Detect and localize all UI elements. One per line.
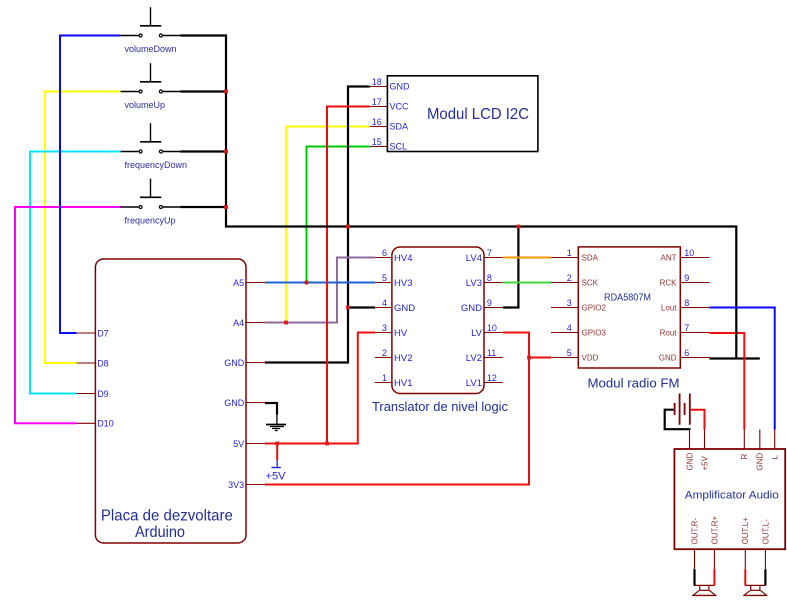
- svg-text:6: 6: [684, 348, 689, 358]
- module U3 Translator de nivel logic: [392, 247, 484, 394]
- svg-text:OUT.R-: OUT.R-: [690, 518, 699, 545]
- svg-text:HV1: HV1: [394, 378, 412, 389]
- svg-text:GPIO3: GPIO3: [582, 328, 607, 337]
- pin GND (Arduino right): [224, 398, 265, 408]
- wire: Arduino GND to earth (black): [265, 403, 277, 415]
- svg-text:1: 1: [567, 248, 572, 258]
- wire: branch to translator GND pin4 (black): [348, 306, 375, 308]
- junction: [517, 225, 521, 229]
- wire: Rout to amp R (red): [710, 333, 745, 430]
- pin 5 HV3 (translator left): [375, 273, 413, 289]
- pin 17 VCC (LCD): [370, 97, 409, 111]
- svg-text:SCK: SCK: [582, 278, 599, 287]
- pin D10 (Arduino left): [77, 419, 114, 429]
- pin 12 LV1 (translator right): [466, 373, 503, 389]
- svg-text:Modul radio FM: Modul radio FM: [588, 376, 680, 391]
- module U4 RDA5807M radio: [578, 247, 680, 368]
- junction: [325, 442, 329, 446]
- pin 5 VDD (radio left): [551, 348, 599, 362]
- svg-text:+5V: +5V: [700, 455, 709, 470]
- svg-text:SCL: SCL: [390, 141, 408, 151]
- svg-text:LV: LV: [471, 328, 483, 339]
- svg-text:volumeUp: volumeUp: [125, 100, 166, 110]
- wire: button bus segment SW2 (black): [180, 90, 226, 92]
- pin L (amp top): [771, 430, 780, 460]
- svg-text:HV4: HV4: [394, 253, 412, 264]
- svg-text:Rout: Rout: [660, 328, 678, 337]
- wire: OUT.L- to speaker LS2 (black): [764, 569, 766, 585]
- svg-text:SDA: SDA: [582, 253, 599, 262]
- svg-text:GND: GND: [224, 358, 245, 368]
- svg-text:GND: GND: [390, 81, 411, 91]
- push button SW2 volumeUp: [121, 63, 181, 93]
- pin 18 GND (LCD): [370, 77, 410, 91]
- pin GND (amp top): [685, 430, 694, 471]
- svg-text:15: 15: [372, 137, 382, 147]
- wire: frequencyUp to D10 (magenta): [15, 207, 121, 423]
- svg-text:GND: GND: [756, 453, 765, 471]
- wire: Lout to amp L (blue): [710, 308, 775, 430]
- svg-text:LV4: LV4: [466, 253, 482, 264]
- pin 4 GPIO3 (radio left): [551, 323, 607, 337]
- svg-text:9: 9: [684, 273, 689, 283]
- svg-text:RCK: RCK: [660, 278, 678, 287]
- svg-text:D10: D10: [97, 419, 114, 429]
- svg-text:OUT.R+: OUT.R+: [710, 516, 719, 545]
- pin GND (Arduino right): [224, 358, 265, 368]
- pin 10 ANT (radio right): [661, 248, 710, 262]
- svg-text:5V: 5V: [233, 439, 244, 449]
- junction: [275, 442, 279, 446]
- svg-text:Translator de nivel logic: Translator de nivel logic: [372, 400, 508, 414]
- svg-text:VDD: VDD: [582, 353, 599, 362]
- svg-text:Placa de dezvoltare: Placa de dezvoltare: [101, 508, 233, 525]
- svg-text:GND: GND: [461, 303, 482, 314]
- svg-text:12: 12: [487, 373, 497, 383]
- pin 9 GND (translator right): [461, 298, 503, 314]
- pin 8 Lout (radio right): [661, 298, 710, 312]
- wire: volumeDown to D7 (blue): [60, 36, 121, 334]
- wire: button bus segment SW4 (black): [180, 206, 226, 208]
- pin A4 (Arduino right): [233, 318, 265, 328]
- svg-text:5: 5: [567, 348, 572, 358]
- pin D7 (Arduino left): [77, 328, 109, 338]
- pin A5 (Arduino right): [233, 278, 265, 288]
- junction: [305, 281, 309, 285]
- pin D8 (Arduino left): [77, 358, 109, 368]
- wire: LV3 to radio SCK (green): [503, 282, 551, 284]
- svg-text:D9: D9: [97, 389, 109, 399]
- svg-text:3: 3: [567, 298, 572, 308]
- svg-text:SDA: SDA: [390, 121, 409, 131]
- push button SW1 volumeDown: [121, 7, 181, 37]
- module U2 Modul LCD I2C: [387, 76, 538, 152]
- wire: LCD GND net (black) pin18 down to Arduino GND: [265, 87, 370, 363]
- ground: [266, 415, 286, 431]
- wire: volumeUp to D8 (yellow): [45, 92, 121, 364]
- svg-text:+5V: +5V: [266, 471, 287, 483]
- svg-text:17: 17: [372, 97, 382, 107]
- svg-text:HV: HV: [394, 328, 408, 339]
- wire: OUT.L+ to speaker LS2 (red): [744, 569, 746, 585]
- pin 1 SDA (radio left): [551, 248, 599, 262]
- wire: translator GND pin9 up to bus (black): [503, 227, 519, 308]
- wire: A5 net to HV3 (blue): [265, 282, 375, 284]
- svg-text:4: 4: [567, 323, 572, 333]
- wire: SCL net (green) LCD pin15 down to A5 line: [307, 147, 370, 283]
- svg-text:LV1: LV1: [466, 378, 482, 389]
- push button SW3 frequencyDown: [121, 123, 181, 153]
- wire: bus down, right, down to radio GND (black): [226, 34, 736, 358]
- pin 3V3 (Arduino right): [228, 480, 265, 490]
- wire: branch to radio VDD pin5 (red): [529, 357, 551, 359]
- svg-text:Arduino: Arduino: [135, 524, 185, 541]
- push button SW4 frequencyUp: [121, 179, 181, 209]
- wire: button bus segment SW1 (black): [180, 34, 226, 36]
- svg-text:10: 10: [487, 323, 497, 333]
- pin 9 RCK (radio right): [660, 273, 710, 287]
- pin 16 SDA (LCD): [370, 117, 408, 131]
- pin OUT.R- (amp bottom): [690, 518, 699, 570]
- module U0 Placa de dezvoltare Arduino: [95, 259, 246, 543]
- svg-text:4: 4: [382, 298, 387, 308]
- pin 4 GND (translator left): [375, 298, 415, 314]
- svg-text:2: 2: [567, 273, 572, 283]
- svg-text:Amplificator Audio: Amplificator Audio: [685, 490, 779, 502]
- wire: LV4 to radio SDA (orange): [503, 257, 551, 259]
- svg-text:GND: GND: [685, 453, 694, 471]
- svg-text:GND: GND: [659, 353, 677, 362]
- pin D9 (Arduino left): [77, 389, 109, 399]
- svg-text:3V3: 3V3: [228, 480, 244, 490]
- pin 5V (Arduino right): [233, 439, 265, 449]
- junction: [527, 356, 531, 360]
- pin 15 SCL (LCD): [370, 137, 407, 151]
- svg-text:3: 3: [382, 323, 387, 333]
- svg-text:frequencyDown: frequencyDown: [125, 160, 188, 170]
- pin 11 LV2 (translator right): [466, 348, 503, 364]
- junction: [346, 225, 350, 229]
- svg-text:A4: A4: [233, 318, 244, 328]
- pin 1 HV1 (translator left): [375, 373, 413, 389]
- speaker LS2: [743, 585, 767, 595]
- junction: [346, 306, 350, 310]
- svg-text:HV3: HV3: [394, 278, 412, 289]
- pin R (amp top): [740, 430, 749, 460]
- wire: A4 net to HV4 (purple): [265, 258, 375, 323]
- svg-text:VCC: VCC: [390, 101, 410, 111]
- junction: [224, 205, 228, 209]
- svg-text:6: 6: [382, 248, 387, 258]
- svg-text:A5: A5: [233, 278, 244, 288]
- svg-text:GPIO2: GPIO2: [582, 303, 607, 312]
- svg-text:8: 8: [684, 298, 689, 308]
- svg-text:GND: GND: [394, 303, 415, 314]
- pin 7 Rout (radio right): [660, 323, 710, 337]
- junction: [224, 150, 228, 154]
- svg-text:ANT: ANT: [661, 253, 677, 262]
- pin +5V (amp top): [700, 430, 709, 471]
- pin 3 HV (translator left): [375, 323, 408, 339]
- pin 8 LV3 (translator right): [466, 273, 503, 289]
- module U5 Amplificator Audio: [674, 449, 785, 549]
- wire: button bus segment SW3 (black): [180, 150, 226, 152]
- wire: radio GND pin6 (black): [710, 357, 760, 359]
- svg-text:5: 5: [382, 273, 387, 283]
- svg-text:Lout: Lout: [661, 303, 677, 312]
- svg-text:frequencyUp: frequencyUp: [125, 215, 176, 225]
- svg-text:HV2: HV2: [394, 353, 412, 364]
- pin 3 GPIO2 (radio left): [551, 298, 607, 312]
- svg-text:9: 9: [487, 298, 492, 308]
- wire: battery negative to amp GND (black): [665, 410, 690, 430]
- svg-text:D8: D8: [97, 358, 109, 368]
- svg-text:RDA5807M: RDA5807M: [604, 293, 651, 304]
- pin OUT.R+ (amp bottom): [710, 516, 719, 570]
- pin 2 HV2 (translator left): [375, 348, 413, 364]
- svg-text:GND: GND: [224, 398, 245, 408]
- battery BT1: [675, 394, 690, 425]
- wire: 3V3 rail (red) Arduino 3V3 to translator LV: [265, 333, 529, 485]
- pin OUT.L+ (amp bottom): [741, 517, 750, 569]
- wire: SDA net (yellow) LCD pin16 down to A4 line: [286, 127, 370, 323]
- svg-text:18: 18: [372, 77, 382, 87]
- pin GND (amp top): [756, 430, 765, 471]
- svg-text:LV2: LV2: [466, 353, 482, 364]
- svg-text:D7: D7: [97, 328, 109, 338]
- svg-text:1: 1: [382, 373, 387, 383]
- svg-text:10: 10: [684, 248, 694, 258]
- wire: OUT.R- to speaker LS1 (black): [693, 569, 695, 585]
- junction: [284, 321, 288, 325]
- svg-text:16: 16: [372, 117, 382, 127]
- svg-text:L: L: [771, 455, 780, 460]
- pin 10 LV (translator right): [471, 323, 503, 339]
- pin 7 LV4 (translator right): [466, 248, 503, 264]
- pin 2 SCK (radio left): [551, 273, 599, 287]
- svg-text:volumeDown: volumeDown: [125, 44, 177, 54]
- wire: OUT.R+ to speaker LS1 (red): [713, 569, 715, 585]
- svg-text:11: 11: [487, 348, 496, 358]
- wire: VCC net (red) LCD pin17 to 5V rail: [327, 107, 370, 444]
- svg-text:OUT.L-: OUT.L-: [761, 519, 770, 545]
- svg-text:8: 8: [487, 273, 492, 283]
- pin 6 HV4 (translator left): [375, 248, 413, 264]
- svg-text:OUT.L+: OUT.L+: [741, 517, 750, 545]
- wire: frequencyDown to D9 (cyan): [30, 152, 121, 394]
- svg-text:Modul LCD I2C: Modul LCD I2C: [427, 106, 529, 123]
- svg-text:7: 7: [487, 248, 492, 258]
- pin OUT.L- (amp bottom): [761, 519, 770, 569]
- svg-text:LV3: LV3: [466, 278, 482, 289]
- junction: [224, 90, 228, 94]
- svg-text:2: 2: [382, 348, 387, 358]
- speaker LS1: [692, 585, 716, 595]
- wire: battery positive to amp +5V (red): [691, 410, 705, 430]
- svg-text:R: R: [740, 454, 749, 460]
- pin 6 GND (radio right): [659, 348, 710, 362]
- wire: 5V rail (red) Arduino 5V to translator HV: [265, 333, 375, 444]
- power +5V symbol: [272, 444, 281, 468]
- svg-text:7: 7: [684, 323, 689, 333]
